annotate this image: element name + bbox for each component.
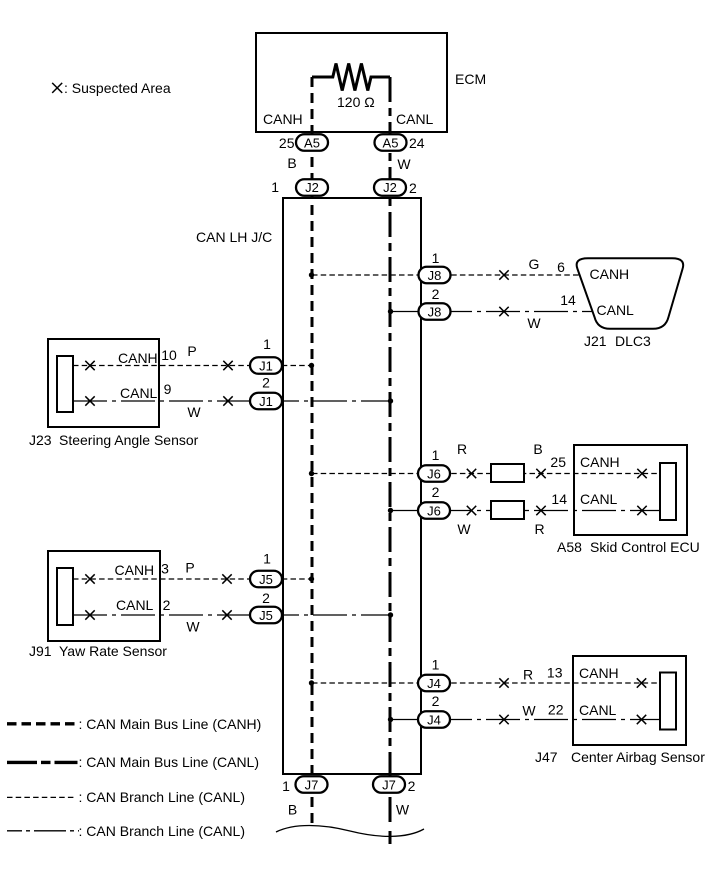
svg-text:25: 25 (550, 454, 566, 470)
svg-text:CANH: CANH (590, 266, 630, 282)
svg-text:: CAN Branch Line (CANL): : CAN Branch Line (CANL) (79, 823, 246, 839)
svg-text:: Suspected Area: : Suspected Area (64, 80, 171, 96)
svg-text:W: W (396, 802, 410, 818)
svg-text:J2: J2 (383, 180, 397, 195)
svg-text:CANL: CANL (116, 597, 154, 613)
svg-text:22: 22 (548, 702, 564, 718)
svg-text:2: 2 (432, 693, 440, 709)
svg-text:W: W (186, 619, 200, 635)
svg-text:P: P (185, 560, 194, 576)
svg-text:CANH: CANH (263, 111, 303, 127)
svg-text:A58: A58 (557, 539, 582, 555)
svg-text:Skid Control ECU: Skid Control ECU (590, 539, 700, 555)
svg-text:W: W (187, 404, 201, 420)
svg-text:2: 2 (432, 484, 440, 500)
svg-text:W: W (397, 156, 411, 172)
svg-text:B: B (533, 441, 542, 457)
svg-text:Yaw Rate Sensor: Yaw Rate Sensor (59, 643, 167, 659)
svg-text:J7: J7 (305, 778, 319, 793)
svg-text:14: 14 (551, 491, 567, 507)
svg-text:J6: J6 (427, 467, 441, 482)
svg-text:: CAN Main Bus Line (CANL): : CAN Main Bus Line (CANL) (79, 754, 260, 770)
svg-text:6: 6 (557, 259, 565, 275)
svg-text:P: P (187, 343, 196, 359)
svg-text:J1: J1 (259, 359, 273, 374)
svg-text:W: W (457, 521, 471, 537)
svg-text:13: 13 (547, 665, 563, 681)
svg-text:25: 25 (279, 135, 295, 151)
svg-text:A5: A5 (304, 135, 320, 150)
svg-text:J8: J8 (428, 268, 442, 283)
svg-text:CANL: CANL (120, 385, 158, 401)
svg-text:CANL: CANL (580, 491, 618, 507)
svg-text:14: 14 (560, 292, 576, 308)
svg-text:2: 2 (163, 597, 171, 613)
svg-text:1: 1 (432, 657, 440, 673)
svg-text:B: B (287, 155, 296, 171)
svg-text:CANL: CANL (396, 111, 434, 127)
svg-text:J91: J91 (29, 643, 52, 659)
svg-text:Steering Angle Sensor: Steering Angle Sensor (59, 432, 199, 448)
svg-text:R: R (534, 521, 544, 537)
svg-text:1: 1 (282, 778, 290, 794)
svg-text:2: 2 (409, 180, 417, 196)
svg-text:2: 2 (432, 286, 440, 302)
svg-text:120 Ω: 120 Ω (337, 94, 375, 110)
svg-text:1: 1 (263, 551, 271, 567)
svg-text:3: 3 (161, 561, 169, 577)
svg-text:CAN LH J/C: CAN LH J/C (196, 229, 272, 245)
svg-text:J1: J1 (259, 394, 273, 409)
svg-text:CANH: CANH (118, 350, 158, 366)
svg-text:CANH: CANH (580, 454, 620, 470)
svg-text:2: 2 (408, 778, 416, 794)
svg-text:2: 2 (262, 590, 270, 606)
svg-text:: CAN Main Bus Line (CANH): : CAN Main Bus Line (CANH) (79, 716, 262, 732)
svg-text:Center Airbag Sensor: Center Airbag Sensor (571, 749, 705, 765)
svg-text:10: 10 (161, 347, 177, 363)
svg-text:J5: J5 (259, 608, 273, 623)
svg-text:J47: J47 (535, 749, 558, 765)
svg-text:DLC3: DLC3 (615, 333, 651, 349)
svg-text:G: G (529, 256, 540, 272)
svg-text:CANH: CANH (579, 665, 619, 681)
svg-text:W: W (522, 703, 536, 719)
svg-text:J23: J23 (29, 432, 52, 448)
svg-text:CANL: CANL (579, 702, 617, 718)
svg-text:1: 1 (263, 336, 271, 352)
svg-text:CANL: CANL (597, 302, 635, 318)
svg-text:R: R (523, 667, 533, 683)
svg-text:J6: J6 (427, 504, 441, 519)
svg-text:J7: J7 (382, 778, 396, 793)
svg-text:1: 1 (432, 447, 440, 463)
svg-text:ECM: ECM (455, 71, 486, 87)
svg-text:B: B (288, 802, 297, 818)
svg-text:J21: J21 (584, 333, 607, 349)
svg-text:2: 2 (262, 375, 270, 391)
svg-text:A5: A5 (383, 135, 399, 150)
svg-text:: CAN Branch Line (CANL): : CAN Branch Line (CANL) (79, 789, 246, 805)
svg-text:W: W (527, 315, 541, 331)
svg-text:24: 24 (409, 135, 425, 151)
svg-text:J8: J8 (428, 305, 442, 320)
svg-text:CANH: CANH (115, 562, 155, 578)
svg-text:J4: J4 (427, 676, 441, 691)
svg-text:1: 1 (432, 250, 440, 266)
svg-text:J2: J2 (305, 180, 319, 195)
svg-text:1: 1 (271, 179, 279, 195)
svg-text:J4: J4 (427, 713, 441, 728)
svg-text:9: 9 (164, 381, 172, 397)
svg-text:J5: J5 (259, 572, 273, 587)
svg-text:R: R (457, 441, 467, 457)
